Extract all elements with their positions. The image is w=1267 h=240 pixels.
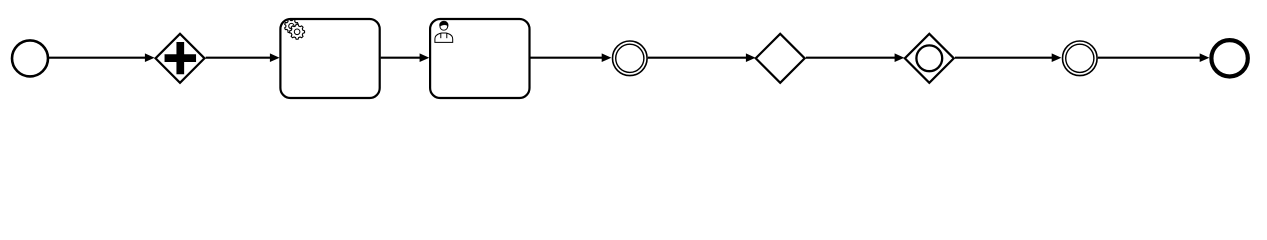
wire E2 to end event: [1098, 57, 1201, 59]
service icon gear back hole: [289, 23, 294, 28]
gateway G1 parallel: [156, 34, 205, 83]
wire G2 to gateway G3: [806, 57, 897, 59]
gateway G2 exclusive: [756, 34, 805, 83]
service icon gear front hole: [294, 29, 300, 35]
intermediate event E1 outer: [613, 41, 648, 76]
plus marker of G1: [165, 42, 196, 74]
wire E1 to gateway G2: [648, 57, 747, 59]
service icon gear front: [290, 24, 305, 39]
task T2 user: [430, 19, 529, 98]
intermediate event E1 inner: [616, 44, 644, 72]
user icon collar right: [446, 33, 448, 38]
intermediate event E2 inner: [1066, 44, 1094, 72]
intermediate event E2 outer: [1063, 41, 1098, 76]
user icon head: [440, 22, 448, 30]
user icon collar left: [440, 33, 442, 38]
gateway G3 event-based: [905, 34, 954, 83]
service icon gear back: [285, 19, 299, 33]
wire G3 to intermediate event E2: [955, 57, 1053, 59]
task T1 service: [280, 19, 379, 98]
user icon body: [435, 33, 453, 42]
end event: [1211, 40, 1247, 76]
user icon hair: [439, 21, 448, 27]
wire T2 to intermediate event E1: [531, 57, 603, 59]
G3 inner circle: [916, 45, 942, 71]
wire T1 to T2: [381, 57, 421, 59]
wire start to parallel gateway: [49, 57, 146, 59]
start event: [12, 40, 48, 76]
wire gateway to task T1: [206, 57, 271, 59]
